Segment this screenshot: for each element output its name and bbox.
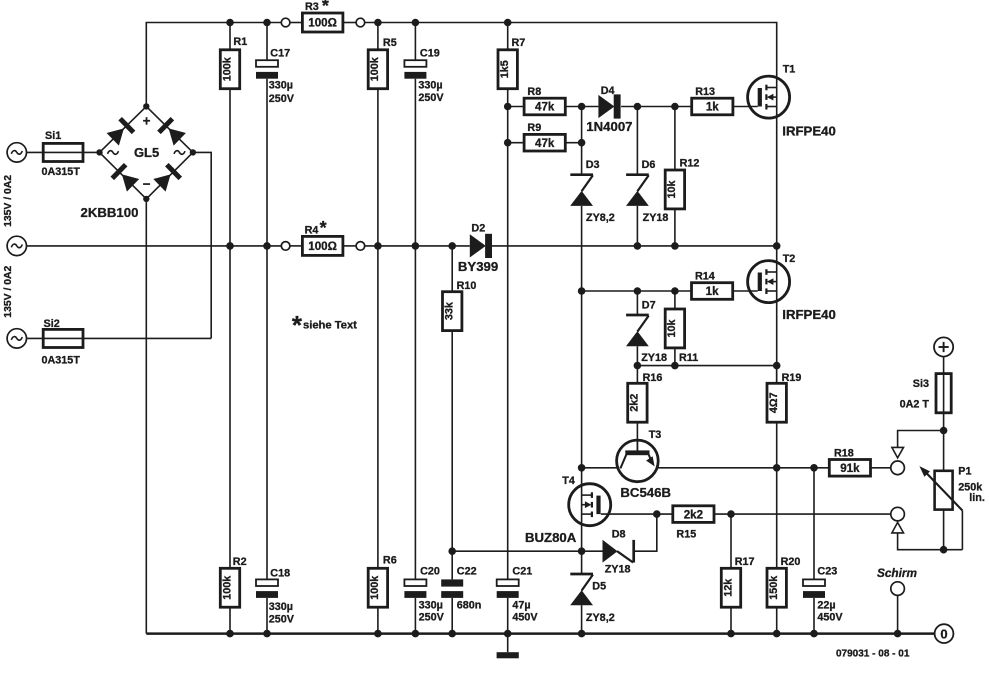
wire T2 drain/source lead	[776, 246, 778, 383]
label R14	[695, 270, 715, 282]
junction	[727, 630, 735, 638]
resistor R6	[368, 568, 387, 607]
junction	[374, 19, 382, 27]
junction	[671, 362, 679, 370]
label R20	[781, 556, 801, 568]
svg-text:450V: 450V	[512, 612, 538, 624]
capacitor C20	[404, 579, 426, 597]
diode D4 1N4007	[598, 94, 620, 118]
label C17	[270, 47, 290, 59]
wire bus T3 emitter row	[582, 467, 891, 469]
svg-text:Si2: Si2	[44, 318, 60, 330]
junction	[374, 630, 382, 638]
resistor R16	[628, 383, 647, 422]
junction	[773, 464, 781, 472]
resistor R8	[524, 98, 565, 115]
label R17	[735, 556, 755, 568]
label T1	[783, 64, 796, 76]
zener diode D3	[570, 175, 593, 206]
label 079031 - 08 - 01	[836, 649, 910, 660]
svg-text:C19: C19	[420, 47, 440, 59]
label R16	[643, 372, 663, 384]
resistor R3 with disconnect circles	[281, 13, 364, 32]
svg-text:ZY18: ZY18	[641, 352, 667, 364]
svg-text:R18: R18	[834, 448, 854, 460]
junction	[671, 103, 679, 111]
wire C23 column	[813, 468, 815, 634]
junction	[578, 630, 586, 638]
svg-text:2KBB100: 2KBB100	[81, 205, 139, 220]
svg-text:C17: C17	[270, 47, 290, 59]
svg-text:IRFPE40: IRFPE40	[782, 307, 836, 322]
junction	[578, 464, 586, 472]
wire R20 column	[776, 468, 778, 634]
capacitor C22	[441, 579, 463, 597]
wire D8 cathode riser to gate row	[634, 514, 657, 551]
svg-text:T1: T1	[783, 64, 796, 76]
capacitor C21	[497, 579, 519, 597]
label R13	[695, 86, 715, 98]
svg-text:D3: D3	[586, 159, 600, 171]
junction	[653, 510, 661, 518]
arrow pin B (up)	[892, 522, 904, 533]
label R5	[383, 37, 397, 49]
value BY399	[458, 259, 498, 274]
wire D6 cathode up to D4 node	[636, 107, 638, 175]
svg-text:1k: 1k	[706, 101, 719, 114]
label C18	[270, 567, 290, 579]
value BC546B	[620, 485, 671, 500]
label 135V / 0A2 lower winding	[3, 265, 14, 317]
svg-text:100k: 100k	[221, 56, 233, 81]
wire row R8/D4/R13 gate line of T1	[508, 106, 758, 108]
svg-text:R17: R17	[735, 556, 755, 568]
wire R5-R6 column	[377, 23, 379, 634]
svg-text:1k: 1k	[706, 285, 719, 298]
transistor T1 IRFPE40	[748, 76, 790, 118]
junction	[412, 630, 420, 638]
wire R17 column	[730, 514, 732, 634]
svg-text:ZY18: ZY18	[643, 212, 669, 224]
svg-text:R8: R8	[527, 86, 541, 98]
value 2KBB100	[81, 205, 139, 220]
wire bridge - corner down to ground bus	[145, 199, 147, 634]
diode D2 BY399	[470, 234, 492, 258]
label T3	[649, 429, 662, 441]
value IRFPE40 (T2)	[782, 307, 836, 322]
junction	[773, 242, 781, 250]
zener diode D6	[626, 175, 649, 206]
svg-text:10k: 10k	[666, 179, 678, 198]
svg-text:33k: 33k	[444, 301, 456, 320]
svg-text:R3: R3	[305, 1, 319, 13]
svg-text:47k: 47k	[535, 101, 555, 114]
junction	[263, 19, 271, 27]
value 250k lin.	[958, 482, 985, 505]
svg-text:GL5: GL5	[134, 145, 159, 160]
svg-text:+: +	[143, 114, 151, 129]
junction	[448, 242, 456, 250]
label C19	[420, 47, 440, 59]
svg-text:C20: C20	[420, 566, 440, 578]
wire + terminal to fuse Si3 and node	[943, 357, 945, 431]
value C17	[269, 79, 295, 105]
svg-text:12k: 12k	[722, 578, 734, 597]
svg-text:C18: C18	[270, 567, 290, 579]
svg-text:D4: D4	[601, 85, 615, 97]
junction	[226, 242, 234, 250]
svg-text:R9: R9	[527, 122, 541, 134]
svg-text:Si1: Si1	[45, 130, 61, 142]
svg-text:100k: 100k	[369, 575, 381, 600]
resistor R12	[665, 170, 684, 209]
junction	[578, 287, 586, 295]
svg-text:siehe Text: siehe Text	[303, 320, 357, 332]
fuse Si2	[43, 329, 83, 347]
capacitor C17	[256, 60, 278, 79]
svg-text:R14: R14	[695, 270, 715, 282]
svg-text:4Ω7: 4Ω7	[768, 392, 780, 413]
svg-text:250V: 250V	[269, 93, 295, 105]
label R1	[233, 36, 247, 48]
label R10	[457, 280, 477, 292]
svg-text:2k2: 2k2	[684, 508, 703, 521]
wire node to arrow pin A	[898, 431, 944, 448]
svg-text:ZY18: ZY18	[605, 564, 631, 576]
label R9	[527, 122, 541, 134]
resistor R1	[220, 50, 239, 89]
label R18	[834, 448, 854, 460]
wire centre-tap bus from R4 to D2 anode	[365, 245, 470, 247]
junction	[412, 19, 420, 27]
value 1N4007	[586, 119, 632, 134]
pin circle A	[891, 461, 905, 475]
junction	[578, 547, 586, 555]
junction	[374, 242, 382, 250]
svg-text:0A315T: 0A315T	[42, 355, 81, 367]
svg-text:100Ω: 100Ω	[308, 240, 337, 253]
value 0A315T (Si2)	[42, 355, 81, 367]
wire C22 top node to T4 source/D8/D5 node	[452, 550, 581, 552]
junction	[773, 362, 781, 370]
svg-text:D2: D2	[471, 223, 485, 235]
label R4	[305, 224, 319, 236]
junction	[504, 139, 512, 147]
label R7	[512, 37, 526, 49]
resistor R18	[829, 460, 870, 477]
svg-text:079031 - 08 - 01: 079031 - 08 - 01	[836, 649, 910, 660]
label C20	[420, 566, 440, 578]
junction	[727, 510, 735, 518]
wire top bus left segment with riser from bridge + corner	[146, 23, 281, 107]
svg-text:330µ: 330µ	[419, 599, 443, 611]
resistor R11	[665, 309, 684, 348]
resistor R20	[767, 568, 786, 607]
value C21	[512, 599, 538, 623]
junction	[263, 630, 271, 638]
terminal + output	[934, 337, 953, 356]
junction	[263, 242, 271, 250]
svg-text:R16: R16	[643, 372, 663, 384]
resistor R10	[443, 292, 462, 331]
resistor R13	[692, 98, 733, 115]
svg-text:−: −	[143, 177, 151, 192]
transistor T4 BUZ80A	[569, 484, 611, 526]
junction	[940, 546, 948, 554]
label R3	[305, 1, 319, 13]
junction	[412, 242, 420, 250]
wire C19-C20 column	[414, 23, 416, 634]
label D4	[601, 85, 615, 97]
svg-text:R2: R2	[233, 556, 247, 568]
label D2	[471, 223, 485, 235]
junction	[448, 630, 456, 638]
wire D3 anode down to gate row of T2 and on to T3/T4 column	[581, 206, 583, 574]
asterisk R3	[322, 0, 329, 16]
svg-text:IRFPE40: IRFPE40	[782, 124, 836, 139]
svg-text:135V / 0A2: 135V / 0A2	[3, 175, 14, 227]
junction	[578, 103, 586, 111]
svg-text:150k: 150k	[768, 575, 780, 600]
svg-text:*: *	[322, 0, 329, 16]
svg-text:ZY8,2: ZY8,2	[586, 612, 615, 624]
capacitor C18	[256, 579, 278, 597]
wire R19 leads	[776, 366, 778, 468]
wire AC1 to bridge left corner through fuse Si1	[27, 151, 100, 153]
svg-text:D7: D7	[642, 300, 656, 312]
wire R7-C21 column	[507, 23, 509, 634]
junction	[671, 242, 679, 250]
value C19	[418, 80, 444, 104]
wire R16 leads	[636, 366, 638, 453]
value 0A2 T (Si3)	[900, 399, 930, 411]
wire C17-C18 column	[266, 23, 268, 634]
value C20	[419, 599, 445, 623]
svg-text:ZY8,2: ZY8,2	[586, 212, 615, 224]
label R15	[676, 528, 696, 540]
svg-text:lin.: lin.	[969, 492, 985, 504]
svg-text:330µ: 330µ	[269, 601, 293, 613]
value C23	[817, 599, 843, 623]
wire D6 anode to centre-tap bus	[636, 206, 638, 246]
junction	[634, 362, 642, 370]
label C21	[512, 566, 532, 578]
svg-text:450V: 450V	[817, 612, 843, 624]
svg-text:0: 0	[940, 626, 947, 641]
wire D5 anode to ground bus	[581, 605, 583, 633]
value ZY18 (D6)	[643, 212, 669, 224]
svg-text:R20: R20	[781, 556, 801, 568]
wire top bus right segment continuing down into T1 drain/source lead	[365, 23, 777, 246]
label C22	[457, 566, 477, 578]
label D5	[592, 581, 606, 593]
svg-text:T3: T3	[649, 429, 662, 441]
junction	[504, 630, 512, 638]
svg-text:P1: P1	[958, 466, 971, 478]
transistor T2 IRFPE40	[748, 261, 790, 303]
svg-text:100k: 100k	[369, 56, 381, 81]
svg-text:R15: R15	[676, 528, 696, 540]
resistor R9	[524, 134, 565, 151]
junction	[810, 464, 818, 472]
wire R10-C22 column	[451, 246, 453, 634]
svg-text:T4: T4	[562, 475, 575, 487]
svg-text:Schirm: Schirm	[877, 566, 917, 580]
junction	[671, 287, 679, 295]
svg-text:R10: R10	[457, 280, 477, 292]
wire bridge right corner to Si2 riser	[193, 152, 211, 338]
zener diode D7	[626, 315, 649, 346]
wire node B vertical (R8/R9 right to D3 cathode)	[581, 107, 583, 175]
resistor R17	[721, 568, 740, 607]
wire Schirm to ground bus	[897, 595, 899, 633]
svg-text:2k2: 2k2	[629, 394, 641, 412]
wire centre-tap bus from AC2 to R4	[27, 245, 282, 247]
svg-text:100k: 100k	[221, 575, 233, 600]
wire pin B arrow to P1 bottom rail	[898, 533, 963, 550]
label D8	[612, 529, 626, 541]
junction	[448, 547, 456, 555]
label P1	[958, 466, 971, 478]
svg-text:BUZ80A: BUZ80A	[525, 530, 577, 545]
capacitor C23	[803, 579, 825, 597]
junction	[578, 139, 586, 147]
value C22	[457, 599, 482, 611]
svg-text:R11: R11	[679, 352, 698, 364]
terminal Schirm	[891, 582, 905, 596]
wire AC3 to riser through fuse Si2	[27, 337, 212, 339]
resistor R5	[368, 50, 387, 89]
junction	[894, 630, 902, 638]
ground symbol	[497, 634, 519, 659]
junction	[504, 103, 512, 111]
value ZY8,2 (D3)	[586, 212, 615, 224]
junction	[634, 242, 642, 250]
wire R11 leads	[674, 291, 676, 366]
value C18	[269, 601, 295, 625]
svg-text:250V: 250V	[269, 613, 295, 625]
bridge rectifier GL5	[96, 103, 196, 202]
resistor R4 with disconnect circles	[281, 236, 364, 255]
junction	[773, 630, 781, 638]
svg-text:680n: 680n	[457, 599, 482, 611]
AC terminal 3	[7, 329, 26, 348]
potentiometer P1	[919, 431, 962, 550]
label Si1	[45, 130, 61, 142]
svg-text:47k: 47k	[535, 137, 555, 150]
svg-text:D8: D8	[612, 529, 626, 541]
resistor R14	[692, 283, 733, 300]
wire row D7/R11 to T2 source	[637, 365, 776, 367]
svg-text:D5: D5	[592, 581, 606, 593]
svg-text:47µ: 47µ	[512, 599, 530, 611]
resistor R2	[220, 568, 239, 607]
junction	[810, 630, 818, 638]
fuse Si1	[43, 143, 83, 161]
svg-text:R13: R13	[695, 86, 715, 98]
svg-text:135V / 0A2: 135V / 0A2	[3, 265, 14, 317]
wire D7 leads	[636, 291, 638, 366]
svg-text:R6: R6	[383, 555, 397, 567]
svg-text:1k5: 1k5	[499, 60, 511, 78]
wire R12 leads	[674, 107, 676, 246]
wire R1-R2 column	[229, 23, 231, 634]
label R6	[383, 555, 397, 567]
wire row R9	[508, 142, 582, 144]
junction	[940, 427, 948, 435]
label R11	[679, 352, 698, 364]
value ZY18 (D7)	[641, 352, 667, 364]
svg-text:C21: C21	[512, 566, 532, 578]
svg-text:100Ω: 100Ω	[308, 17, 337, 30]
label R12	[680, 157, 700, 169]
svg-text:*: *	[292, 310, 303, 340]
pin circle B	[891, 507, 905, 521]
label D6	[642, 159, 656, 171]
svg-text:R1: R1	[233, 36, 247, 48]
svg-text:R7: R7	[512, 37, 526, 49]
svg-text:R5: R5	[383, 37, 397, 49]
svg-text:C23: C23	[817, 566, 837, 578]
svg-text:22µ: 22µ	[817, 599, 835, 611]
svg-text:R12: R12	[680, 157, 700, 169]
label C23	[817, 566, 837, 578]
label Si3	[913, 378, 929, 390]
zener diode D5	[570, 574, 593, 605]
label T4	[562, 475, 575, 487]
resistor R7	[498, 50, 517, 89]
terminal 0 output	[935, 624, 954, 643]
junction	[226, 19, 234, 27]
svg-text:R19: R19	[782, 372, 802, 384]
wire ground bus	[146, 632, 934, 635]
label Si2	[44, 318, 60, 330]
svg-text:91k: 91k	[840, 462, 860, 475]
value ZY8,2 (D5)	[586, 612, 615, 624]
AC terminal 1	[7, 143, 26, 162]
note siehe Text	[292, 310, 357, 340]
svg-text:*: *	[320, 218, 327, 238]
svg-text:0A315T: 0A315T	[42, 166, 81, 178]
wire T4 gate row to R15 and output pin	[601, 513, 891, 515]
svg-text:10k: 10k	[666, 318, 678, 337]
wire centre-tap bus from D2 cathode to T2 drain	[491, 245, 776, 247]
value BUZ80A	[525, 530, 577, 545]
wire row T2 gate (node C to R14)	[582, 290, 758, 292]
value IRFPE40 (T1)	[782, 124, 836, 139]
label D7	[642, 300, 656, 312]
svg-text:T2: T2	[783, 253, 796, 265]
label 135V / 0A2 upper winding	[3, 175, 14, 227]
svg-text:330µ: 330µ	[418, 80, 442, 92]
label R19	[782, 372, 802, 384]
value 0A315T (Si1)	[42, 166, 81, 178]
capacitor C19	[404, 60, 426, 79]
transistor T3 BC546B	[617, 440, 659, 482]
svg-text:250V: 250V	[419, 612, 445, 624]
asterisk R4	[320, 218, 327, 238]
svg-text:330µ: 330µ	[269, 79, 293, 91]
AC terminal 2	[7, 236, 26, 255]
label D3	[586, 159, 600, 171]
svg-text:1N4007: 1N4007	[586, 119, 632, 134]
svg-text:R4: R4	[305, 224, 319, 236]
label Schirm	[877, 566, 917, 580]
svg-text:BY399: BY399	[458, 259, 498, 274]
svg-text:0A2 T: 0A2 T	[900, 399, 930, 411]
label T2	[783, 253, 796, 265]
junction	[634, 287, 642, 295]
